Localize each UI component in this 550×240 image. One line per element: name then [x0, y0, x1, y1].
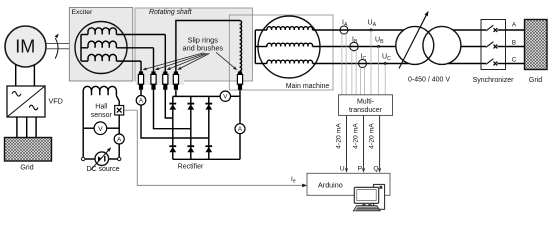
exciter winding c	[81, 60, 88, 62]
transformer winding 1	[396, 26, 434, 64]
wire VFD-grid	[16, 117, 18, 138]
svg-text:IM: IM	[15, 36, 35, 56]
VFD converter	[7, 86, 45, 117]
exciter field coil	[83, 86, 116, 97]
svg-text:sensor: sensor	[91, 112, 113, 119]
svg-text:C: C	[512, 57, 517, 64]
wire B to grid	[506, 46, 525, 48]
multi-transducer box	[339, 95, 393, 116]
switch at y=63.5	[481, 63, 486, 65]
diode D4	[169, 145, 176, 147]
wire IM-VFD	[15, 65, 17, 87]
slip ring 4	[174, 71, 178, 74]
wire ring4 top	[176, 21, 240, 72]
switch at y=46.5	[481, 46, 486, 48]
slip ring 5	[238, 71, 242, 74]
rectifier bottom bus	[173, 158, 240, 160]
wire B	[461, 46, 481, 48]
svg-text:Arduino: Arduino	[318, 180, 343, 189]
CT IB	[350, 42, 358, 50]
transformer winding 2	[423, 26, 461, 64]
arduino box	[307, 173, 390, 195]
wire A2 down	[239, 134, 241, 160]
keyboard	[353, 206, 380, 211]
induction motor IM	[5, 26, 46, 67]
variac arrow	[399, 15, 426, 68]
svg-text:0-450 / 400 V: 0-450 / 400 V	[408, 76, 450, 83]
wire left	[82, 96, 84, 159]
wire ring1 down	[140, 90, 142, 96]
diode D1	[169, 103, 176, 105]
svg-text:U: U	[340, 165, 345, 172]
svg-text:transducer: transducer	[349, 107, 383, 114]
slip ring 1	[139, 71, 143, 74]
wire A1 to leg3	[141, 105, 209, 138]
rotating shaft box	[135, 8, 253, 81]
ammeter A2	[235, 124, 245, 134]
stator winding A	[255, 29, 267, 31]
svg-text:VFD: VFD	[49, 96, 63, 105]
svg-text:Hall: Hall	[95, 103, 108, 110]
stator bus	[254, 30, 256, 64]
stator winding C	[255, 63, 267, 65]
voltmeter V1	[209, 95, 220, 97]
rotation arrow	[55, 38, 58, 58]
wire A3 down	[118, 144, 120, 157]
wire ring5 down	[239, 90, 241, 124]
Ie signal wire	[124, 110, 302, 185]
exciter winding bus	[80, 35, 82, 62]
svg-text:UA: UA	[368, 20, 377, 28]
exciter winding a	[81, 34, 88, 36]
grid (left)	[5, 138, 52, 162]
wire right elbow	[116, 96, 119, 106]
wire ring2 to leg2	[154, 90, 191, 129]
output Q	[379, 115, 381, 168]
switch at y=30	[481, 29, 486, 31]
voltmeter V2	[83, 127, 94, 129]
svg-text:4-20 mA: 4-20 mA	[336, 123, 343, 149]
wire ring4 down	[175, 90, 177, 97]
output P	[363, 115, 365, 168]
stator winding B	[255, 46, 267, 48]
wire C	[448, 63, 481, 65]
wire ring3 to leg1	[165, 90, 173, 118]
diode D3	[205, 103, 212, 105]
slip ring 3	[163, 71, 167, 74]
svg-text:Ie: Ie	[291, 176, 296, 184]
ammeter A1	[136, 96, 146, 106]
wire A to grid	[506, 29, 525, 31]
ammeter A3	[114, 134, 124, 144]
wire hall to A3	[118, 115, 120, 134]
label arrows	[146, 53, 203, 69]
svg-text:4-20 mA: 4-20 mA	[353, 123, 360, 149]
main machine stator	[258, 16, 320, 78]
wire C to grid	[506, 63, 525, 65]
svg-text:Q: Q	[373, 165, 378, 172]
tap UB	[377, 45, 380, 48]
svg-text:A: A	[512, 22, 517, 29]
main machine box	[229, 15, 333, 90]
wires to slip rings	[164, 35, 166, 72]
svg-text:Grid: Grid	[20, 164, 33, 171]
svg-text:UC: UC	[382, 54, 391, 62]
rectifier leg 1	[172, 96, 174, 159]
rectifier leg 2	[190, 96, 192, 159]
svg-text:UB: UB	[375, 37, 384, 45]
rectifier top bus	[173, 95, 209, 97]
hall sensor box	[115, 106, 124, 116]
svg-text:IC: IC	[361, 54, 367, 62]
output U	[346, 115, 348, 168]
svg-text:Main machine: Main machine	[286, 83, 330, 90]
svg-text:Synchronizer: Synchronizer	[473, 77, 515, 84]
wire A	[453, 29, 481, 31]
svg-text:IA: IA	[342, 20, 348, 28]
exciter winding b	[81, 47, 88, 49]
computer tower	[374, 184, 385, 209]
svg-text:B: B	[512, 39, 516, 46]
tap UA	[370, 29, 373, 32]
DC source	[95, 152, 109, 166]
grid (right)	[525, 20, 548, 70]
diode D2	[187, 103, 194, 105]
svg-text:Rectifier: Rectifier	[178, 163, 204, 170]
svg-text:IB: IB	[352, 37, 358, 45]
svg-text:DC source: DC source	[86, 166, 119, 173]
svg-text:4-20 mA: 4-20 mA	[369, 123, 376, 149]
svg-text:P: P	[358, 165, 363, 172]
shaft	[46, 43, 69, 45]
CT IA	[340, 26, 348, 34]
synchronizer box	[481, 20, 506, 70]
tap UC	[384, 62, 387, 65]
svg-text:Exciter: Exciter	[72, 9, 94, 16]
diode D6	[205, 145, 212, 147]
slip ring 2	[151, 71, 155, 74]
diode D5	[187, 145, 194, 147]
svg-text:Multi-: Multi-	[357, 99, 375, 106]
svg-text:and brushes: and brushes	[182, 44, 223, 53]
monitor stand	[362, 203, 365, 205]
svg-text:Rotating shaft: Rotating shaft	[149, 9, 193, 16]
bottom wire + terminals	[82, 157, 85, 160]
CT IC	[359, 60, 367, 68]
measurement leads	[341, 33, 343, 95]
exciter armature	[75, 22, 127, 74]
rectifier leg 3	[208, 96, 210, 159]
svg-text:Grid: Grid	[529, 77, 542, 84]
main field winding	[240, 21, 242, 71]
computer monitor	[354, 187, 378, 203]
exciter box	[69, 8, 133, 81]
svg-text:V: V	[98, 126, 103, 133]
